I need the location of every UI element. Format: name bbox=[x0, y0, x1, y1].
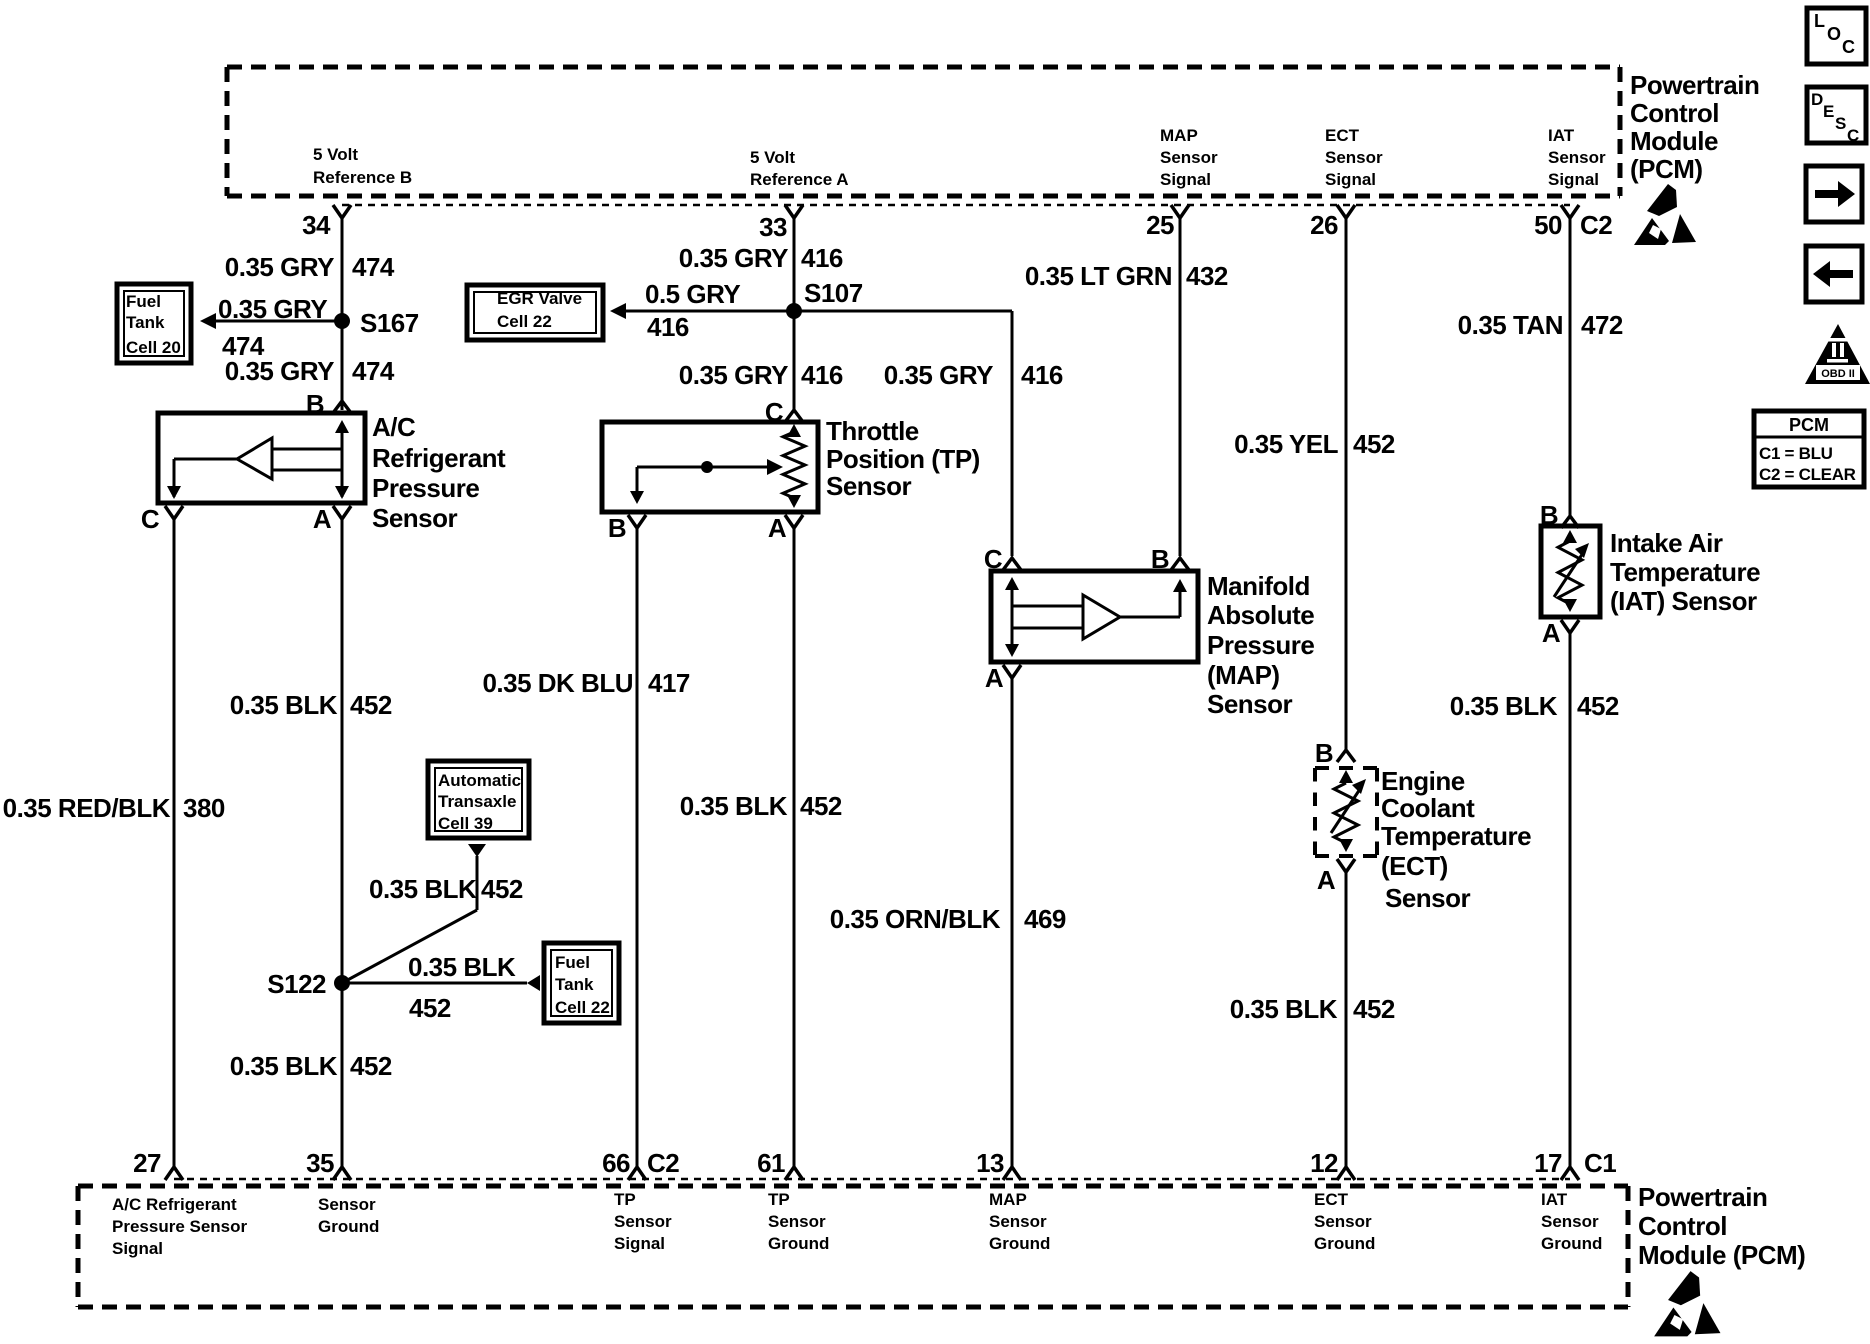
pin A of ECT sensor bbox=[1317, 859, 1355, 895]
svg-text:Sensor: Sensor bbox=[1541, 1212, 1599, 1231]
label MAP Sensor Ground bbox=[989, 1190, 1050, 1253]
svg-text:Sensor: Sensor bbox=[1314, 1212, 1372, 1231]
svg-text:50: 50 bbox=[1534, 210, 1562, 240]
label 0.35 RED/BLK 380 bbox=[3, 793, 225, 823]
pin 33 connector bbox=[759, 205, 803, 242]
svg-text:0.35 GRY: 0.35 GRY bbox=[218, 294, 327, 324]
op-amp triangle pointing left bbox=[237, 438, 272, 479]
pin B of ECT sensor bbox=[1315, 738, 1355, 768]
wiper arm bbox=[637, 466, 774, 469]
label 0.35 BLK 452 (ECT ground) bbox=[1230, 994, 1395, 1024]
svg-text:0.35 BLK: 0.35 BLK bbox=[369, 874, 477, 904]
svg-text:0.35 YEL: 0.35 YEL bbox=[1234, 429, 1339, 459]
svg-text:452: 452 bbox=[350, 690, 392, 720]
svg-text:416: 416 bbox=[801, 360, 843, 390]
svg-text:Fuel: Fuel bbox=[555, 953, 590, 972]
pin C of A/C sensor bbox=[141, 504, 183, 534]
Engine Coolant Temperature (ECT) Sensor dashed box bbox=[1315, 768, 1377, 856]
svg-text:A/C Refrigerant: A/C Refrigerant bbox=[112, 1195, 237, 1214]
svg-text:C1 = BLU: C1 = BLU bbox=[1759, 444, 1833, 463]
svg-text:Throttle: Throttle bbox=[826, 416, 919, 446]
off-page ref EGR Valve Cell 22 bbox=[467, 285, 603, 340]
svg-text:Sensor: Sensor bbox=[1385, 883, 1471, 913]
pin B of MAP sensor bbox=[1151, 544, 1189, 574]
svg-text:Coolant: Coolant bbox=[1381, 793, 1475, 823]
off-page ref Fuel Tank Cell 22 bbox=[544, 943, 619, 1023]
label 0.35 GRY 474 (lower) bbox=[225, 356, 395, 386]
wire 452 from A/C pin A to S122 bbox=[341, 519, 344, 983]
wire 416 branch from S107 to MAP sensor pin C bbox=[794, 311, 1012, 556]
svg-text:Sensor: Sensor bbox=[1207, 689, 1293, 719]
svg-text:27: 27 bbox=[133, 1148, 161, 1178]
pin 27 connector bbox=[133, 1148, 183, 1180]
svg-text:25: 25 bbox=[1146, 210, 1174, 240]
svg-text:34: 34 bbox=[302, 210, 331, 240]
in+ line bbox=[272, 448, 342, 451]
svg-text:Engine: Engine bbox=[1381, 766, 1465, 796]
svg-text:17: 17 bbox=[1534, 1148, 1562, 1178]
svg-text:Temperature: Temperature bbox=[1610, 557, 1760, 587]
Throttle Position (TP) Sensor box bbox=[602, 422, 818, 512]
pin A of A/C sensor bbox=[313, 504, 351, 534]
internal wire from B down bbox=[341, 424, 344, 470]
PCM connector color legend box bbox=[1754, 411, 1864, 487]
svg-text:0.35 GRY: 0.35 GRY bbox=[225, 356, 334, 386]
wire 474 from pin 34 to S167 bbox=[341, 216, 344, 321]
svg-text:Reference B: Reference B bbox=[313, 168, 412, 187]
net label IAT Sensor Signal bbox=[1548, 126, 1606, 189]
wire 416 branch from S107 to EGR Valve bbox=[610, 303, 794, 319]
wire 416 from S107 to TP sensor pin C bbox=[793, 311, 796, 410]
svg-text:416: 416 bbox=[1021, 360, 1063, 390]
line to pin A bbox=[341, 470, 344, 497]
label TP Sensor Signal bbox=[614, 1190, 672, 1253]
wire 452 from TP pin A to PCM pin 61 bbox=[793, 528, 796, 1170]
pin A of IAT sensor bbox=[1542, 618, 1579, 648]
ECT sensor name bbox=[1381, 766, 1531, 913]
label 0.35 GRY 416 (MAP branch) bbox=[884, 360, 1063, 390]
pin B of TP sensor bbox=[608, 513, 646, 543]
label Powertrain Control Module (PCM) top bbox=[1630, 70, 1759, 184]
pin 26 connector bbox=[1310, 205, 1355, 240]
svg-text:Module (PCM): Module (PCM) bbox=[1638, 1240, 1805, 1270]
svg-text:Signal: Signal bbox=[614, 1234, 665, 1253]
svg-text:Powertrain: Powertrain bbox=[1630, 70, 1759, 100]
svg-text:S: S bbox=[1835, 114, 1846, 133]
A/C Refrigerant Pressure Sensor box bbox=[158, 413, 365, 503]
svg-text:417: 417 bbox=[648, 668, 690, 698]
PCM bottom dashed box outline bbox=[78, 1186, 1628, 1307]
svg-text:Signal: Signal bbox=[1325, 170, 1376, 189]
svg-text:PCM: PCM bbox=[1789, 415, 1829, 435]
svg-text:Manifold: Manifold bbox=[1207, 571, 1310, 601]
svg-text:0.35 BLK: 0.35 BLK bbox=[408, 952, 516, 982]
TP sensor name bbox=[826, 416, 980, 501]
wire 452 branch from S122 to Fuel Tank Cell 22 bbox=[342, 975, 540, 991]
svg-text:13: 13 bbox=[976, 1148, 1004, 1178]
svg-text:Temperature: Temperature bbox=[1381, 821, 1531, 851]
svg-text:S167: S167 bbox=[360, 308, 419, 338]
pin 34 connector bbox=[302, 205, 351, 240]
label 0.35 YEL 452 bbox=[1234, 429, 1395, 459]
svg-text:0.35 BLK: 0.35 BLK bbox=[230, 690, 338, 720]
label 0.35 BLK 452 (TP ground) bbox=[680, 791, 842, 821]
label Powertrain Control Module (PCM) bottom bbox=[1638, 1182, 1805, 1270]
svg-text:A: A bbox=[985, 663, 1004, 693]
wire 474 from S167 to A/C sensor pin B bbox=[341, 321, 344, 410]
svg-text:Transaxle: Transaxle bbox=[438, 792, 516, 811]
label TP Sensor Ground bbox=[768, 1190, 829, 1253]
thermistor diagonal arrow bbox=[1331, 789, 1360, 833]
label A/C Refrigerant Pressure Sensor Signal bbox=[112, 1195, 248, 1258]
off-page ref Fuel Tank Cell 20 bbox=[117, 284, 191, 363]
svg-text:452: 452 bbox=[481, 874, 523, 904]
top connector row C2 thin dotted line bbox=[342, 204, 1570, 207]
in- line bbox=[272, 469, 342, 472]
label 0.35 GRY 416 (upper) bbox=[679, 243, 843, 273]
ESD warning symbol top bbox=[1634, 184, 1696, 245]
wire 416 from pin 33 to S107 bbox=[793, 216, 796, 311]
net label 5 Volt Reference B bbox=[313, 145, 412, 187]
svg-text:Automatic: Automatic bbox=[438, 771, 521, 790]
svg-text:ECT: ECT bbox=[1314, 1190, 1349, 1209]
svg-text:Control: Control bbox=[1638, 1211, 1727, 1241]
svg-text:TP: TP bbox=[768, 1190, 790, 1209]
svg-text:Sensor: Sensor bbox=[768, 1212, 826, 1231]
svg-text:Signal: Signal bbox=[112, 1239, 163, 1258]
svg-text:L: L bbox=[1814, 11, 1825, 31]
wire 452 from ECT pin A to PCM pin 12 bbox=[1345, 872, 1348, 1170]
svg-text:452: 452 bbox=[1577, 691, 1619, 721]
svg-text:S122: S122 bbox=[267, 969, 326, 999]
svg-text:Sensor: Sensor bbox=[1548, 148, 1606, 167]
label IAT Sensor Ground bbox=[1541, 1190, 1602, 1253]
net label MAP Sensor Signal bbox=[1160, 126, 1218, 189]
label 0.35 BLK 452 (upper) bbox=[230, 690, 392, 720]
svg-text:B: B bbox=[608, 513, 626, 543]
svg-text:0.35 BLK: 0.35 BLK bbox=[680, 791, 788, 821]
wire 452 branch from S122 to Automatic Transaxle bbox=[342, 844, 486, 983]
pin 12 connector bbox=[1310, 1148, 1355, 1180]
pin 17 connector C1 bbox=[1534, 1148, 1616, 1180]
svg-text:452: 452 bbox=[800, 791, 842, 821]
wire 380 from A/C pin C to PCM pin 27 bbox=[173, 519, 176, 1170]
svg-text:IAT: IAT bbox=[1548, 126, 1575, 145]
label 0.35 DK BLU 417 bbox=[482, 668, 689, 698]
label 0.35 BLK 452 on transaxle branch bbox=[369, 874, 523, 904]
svg-text:B: B bbox=[1315, 738, 1333, 768]
svg-text:0.35 GRY: 0.35 GRY bbox=[679, 360, 788, 390]
svg-text:C: C bbox=[1842, 37, 1855, 57]
svg-text:0.35 BLK: 0.35 BLK bbox=[1230, 994, 1338, 1024]
wire 452 from S122 to pin 35 bbox=[341, 983, 344, 1170]
svg-text:5 Volt: 5 Volt bbox=[313, 145, 358, 164]
sidebar next-page arrow button bbox=[1806, 166, 1862, 222]
svg-text:C: C bbox=[1847, 126, 1859, 145]
svg-text:Reference A: Reference A bbox=[750, 170, 849, 189]
svg-text:452: 452 bbox=[1353, 994, 1395, 1024]
svg-text:Sensor: Sensor bbox=[614, 1212, 672, 1231]
pin B of IAT sensor bbox=[1540, 500, 1579, 530]
svg-text:Ground: Ground bbox=[989, 1234, 1050, 1253]
svg-text:Sensor: Sensor bbox=[1325, 148, 1383, 167]
svg-text:469: 469 bbox=[1024, 904, 1066, 934]
label Sensor Ground (pin 35) bbox=[318, 1195, 379, 1236]
svg-text:0.35 GRY: 0.35 GRY bbox=[225, 252, 334, 282]
svg-text:S107: S107 bbox=[804, 278, 863, 308]
svg-text:Cell 22: Cell 22 bbox=[497, 312, 552, 331]
svg-text:0.35 LT GRN: 0.35 LT GRN bbox=[1025, 261, 1172, 291]
svg-text:ECT: ECT bbox=[1325, 126, 1360, 145]
label 0.35 BLK 452 (lower) bbox=[230, 1051, 392, 1081]
svg-text:Cell 39: Cell 39 bbox=[438, 814, 493, 833]
svg-text:Intake Air: Intake Air bbox=[1610, 528, 1723, 558]
svg-text:0.35 RED/BLK: 0.35 RED/BLK bbox=[3, 793, 171, 823]
wire 452 from IAT pin A to PCM pin 17 bbox=[1569, 633, 1572, 1170]
Intake Air Temperature (IAT) Sensor box bbox=[1541, 526, 1600, 617]
junction S122 bbox=[267, 969, 350, 999]
svg-text:474: 474 bbox=[352, 356, 395, 386]
svg-text:12: 12 bbox=[1310, 1148, 1338, 1178]
svg-text:Sensor: Sensor bbox=[989, 1212, 1047, 1231]
svg-text:A: A bbox=[313, 504, 332, 534]
svg-text:Tank: Tank bbox=[126, 313, 165, 332]
A/C sensor name bbox=[372, 412, 506, 533]
svg-text:C1: C1 bbox=[1584, 1148, 1616, 1178]
svg-text:Ground: Ground bbox=[1314, 1234, 1375, 1253]
label 0.35 LT GRN 432 bbox=[1025, 261, 1228, 291]
svg-text:Refrigerant: Refrigerant bbox=[372, 443, 506, 473]
svg-text:0.35 GRY: 0.35 GRY bbox=[679, 243, 788, 273]
ESD warning symbol bottom bbox=[1654, 1271, 1720, 1336]
svg-text:(ECT): (ECT) bbox=[1381, 851, 1448, 881]
label ECT Sensor Ground bbox=[1314, 1190, 1375, 1253]
svg-text:416: 416 bbox=[801, 243, 843, 273]
svg-text:Signal: Signal bbox=[1548, 170, 1599, 189]
label 0.35 ORN/BLK 469 bbox=[830, 904, 1066, 934]
sidebar prev-page arrow button bbox=[1806, 246, 1862, 302]
potentiometer resistor bbox=[783, 432, 805, 498]
svg-text:33: 33 bbox=[759, 212, 787, 242]
wire 432 from pin 25 to MAP pin B bbox=[1179, 216, 1182, 556]
svg-text:380: 380 bbox=[183, 793, 225, 823]
svg-text:0.35 TAN: 0.35 TAN bbox=[1458, 310, 1563, 340]
pin B of A/C sensor bbox=[306, 389, 351, 419]
pin 35 connector bbox=[306, 1148, 351, 1180]
MAP sensor name bbox=[1207, 571, 1314, 719]
pin C of MAP sensor bbox=[984, 544, 1021, 574]
wire 417 from TP pin B to PCM pin 66 bbox=[636, 528, 639, 1170]
svg-text:0.35 ORN/BLK: 0.35 ORN/BLK bbox=[830, 904, 1001, 934]
svg-text:Sensor: Sensor bbox=[372, 503, 458, 533]
svg-text:(IAT) Sensor: (IAT) Sensor bbox=[1610, 586, 1757, 616]
svg-text:474: 474 bbox=[352, 252, 395, 282]
wire 452 from pin 26 to ECT pin B bbox=[1345, 216, 1348, 750]
svg-text:0.35 BLK: 0.35 BLK bbox=[230, 1051, 338, 1081]
svg-text:(MAP): (MAP) bbox=[1207, 660, 1280, 690]
net label 5 Volt Reference A bbox=[750, 148, 849, 189]
svg-text:0.35 BLK: 0.35 BLK bbox=[1450, 691, 1558, 721]
off-page ref Automatic Transaxle Cell 39 bbox=[428, 761, 529, 838]
pin 61 connector bbox=[757, 1148, 803, 1180]
svg-text:0.35 DK BLU: 0.35 DK BLU bbox=[482, 668, 633, 698]
svg-text:Sensor: Sensor bbox=[1160, 148, 1218, 167]
svg-text:Sensor: Sensor bbox=[826, 471, 912, 501]
svg-text:MAP: MAP bbox=[989, 1190, 1027, 1209]
svg-text:Ground: Ground bbox=[1541, 1234, 1602, 1253]
svg-text:Pressure: Pressure bbox=[372, 473, 479, 503]
svg-text:TP: TP bbox=[614, 1190, 636, 1209]
svg-text:416: 416 bbox=[647, 312, 689, 342]
svg-text:0.5 GRY: 0.5 GRY bbox=[645, 279, 740, 309]
svg-text:0.35 GRY: 0.35 GRY bbox=[884, 360, 993, 390]
label 0.35 GRY 416 (lower) bbox=[679, 360, 843, 390]
pin C of TP sensor bbox=[765, 397, 803, 427]
wire 474 branch from S167 to Fuel Tank Cell 20 bbox=[200, 313, 342, 329]
svg-text:A: A bbox=[1317, 865, 1336, 895]
svg-text:Position (TP): Position (TP) bbox=[826, 444, 980, 474]
svg-text:61: 61 bbox=[757, 1148, 785, 1178]
svg-text:452: 452 bbox=[1353, 429, 1395, 459]
IAT sensor name bbox=[1610, 528, 1760, 616]
wire 472 from pin 50 to IAT pin B bbox=[1569, 216, 1572, 516]
wire 469 from MAP pin A to PCM pin 13 bbox=[1011, 678, 1014, 1170]
svg-text:A: A bbox=[1542, 618, 1561, 648]
sidebar DESC button bbox=[1807, 87, 1866, 145]
svg-text:Pressure Sensor: Pressure Sensor bbox=[112, 1217, 248, 1236]
svg-text:66: 66 bbox=[602, 1148, 630, 1178]
svg-text:A/C: A/C bbox=[372, 412, 416, 442]
pin 66 connector C2 bbox=[602, 1148, 679, 1180]
svg-text:5 Volt: 5 Volt bbox=[750, 148, 795, 167]
svg-text:MAP: MAP bbox=[1160, 126, 1198, 145]
svg-text:IAT: IAT bbox=[1541, 1190, 1568, 1209]
PCM top dashed box outline bbox=[227, 67, 1620, 196]
svg-text:OBD II: OBD II bbox=[1821, 368, 1855, 380]
svg-text:Fuel: Fuel bbox=[126, 292, 161, 311]
sidebar LOC button bbox=[1807, 8, 1866, 64]
pin 25 connector bbox=[1146, 205, 1189, 240]
label 0.35 TAN 472 bbox=[1458, 310, 1623, 340]
svg-text:C: C bbox=[141, 504, 160, 534]
svg-text:Ground: Ground bbox=[318, 1217, 379, 1236]
pin 50 connector C2 bbox=[1534, 205, 1612, 240]
svg-text:472: 472 bbox=[1581, 310, 1623, 340]
svg-text:C2: C2 bbox=[1580, 210, 1612, 240]
svg-text:C2 = CLEAR: C2 = CLEAR bbox=[1759, 465, 1856, 484]
output line to pin C bbox=[174, 458, 237, 461]
junction S167 bbox=[334, 308, 419, 338]
svg-text:35: 35 bbox=[306, 1148, 334, 1178]
svg-text:(PCM): (PCM) bbox=[1630, 154, 1703, 184]
svg-text:Signal: Signal bbox=[1160, 170, 1211, 189]
sidebar OBD II triangle icon bbox=[1805, 324, 1870, 384]
svg-text:452: 452 bbox=[409, 993, 451, 1023]
junction S107 bbox=[786, 278, 863, 319]
svg-text:Cell 22: Cell 22 bbox=[555, 998, 610, 1017]
svg-text:C2: C2 bbox=[647, 1148, 679, 1178]
pin A of TP sensor bbox=[768, 513, 803, 543]
svg-text:Powertrain: Powertrain bbox=[1638, 1182, 1767, 1212]
svg-text:Tank: Tank bbox=[555, 975, 594, 994]
net label ECT Sensor Signal bbox=[1325, 126, 1383, 189]
svg-text:Ground: Ground bbox=[768, 1234, 829, 1253]
svg-text:26: 26 bbox=[1310, 210, 1338, 240]
svg-text:Sensor: Sensor bbox=[318, 1195, 376, 1214]
bottom connector row thin dotted line bbox=[174, 1178, 1570, 1181]
svg-text:A: A bbox=[768, 513, 787, 543]
label 0.35 BLK 452 (IAT ground) bbox=[1450, 691, 1619, 721]
svg-text:Cell 20: Cell 20 bbox=[126, 338, 181, 357]
svg-text:432: 432 bbox=[1186, 261, 1228, 291]
label 0.35 GRY 474 (upper) bbox=[225, 252, 395, 282]
op-amp triangle pointing right bbox=[1083, 595, 1120, 639]
svg-text:E: E bbox=[1823, 102, 1834, 121]
pin A of MAP sensor bbox=[985, 663, 1021, 693]
svg-text:Absolute: Absolute bbox=[1207, 600, 1314, 630]
svg-text:O: O bbox=[1827, 24, 1841, 44]
thermistor diagonal arrow bbox=[1554, 553, 1583, 597]
svg-text:Module: Module bbox=[1630, 126, 1718, 156]
svg-text:Pressure: Pressure bbox=[1207, 630, 1314, 660]
pin 13 connector bbox=[976, 1148, 1021, 1180]
svg-text:EGR Valve: EGR Valve bbox=[497, 289, 582, 308]
svg-text:452: 452 bbox=[350, 1051, 392, 1081]
svg-text:D: D bbox=[1811, 90, 1823, 109]
Manifold Absolute Pressure (MAP) Sensor box bbox=[991, 571, 1198, 662]
svg-text:Control: Control bbox=[1630, 98, 1719, 128]
